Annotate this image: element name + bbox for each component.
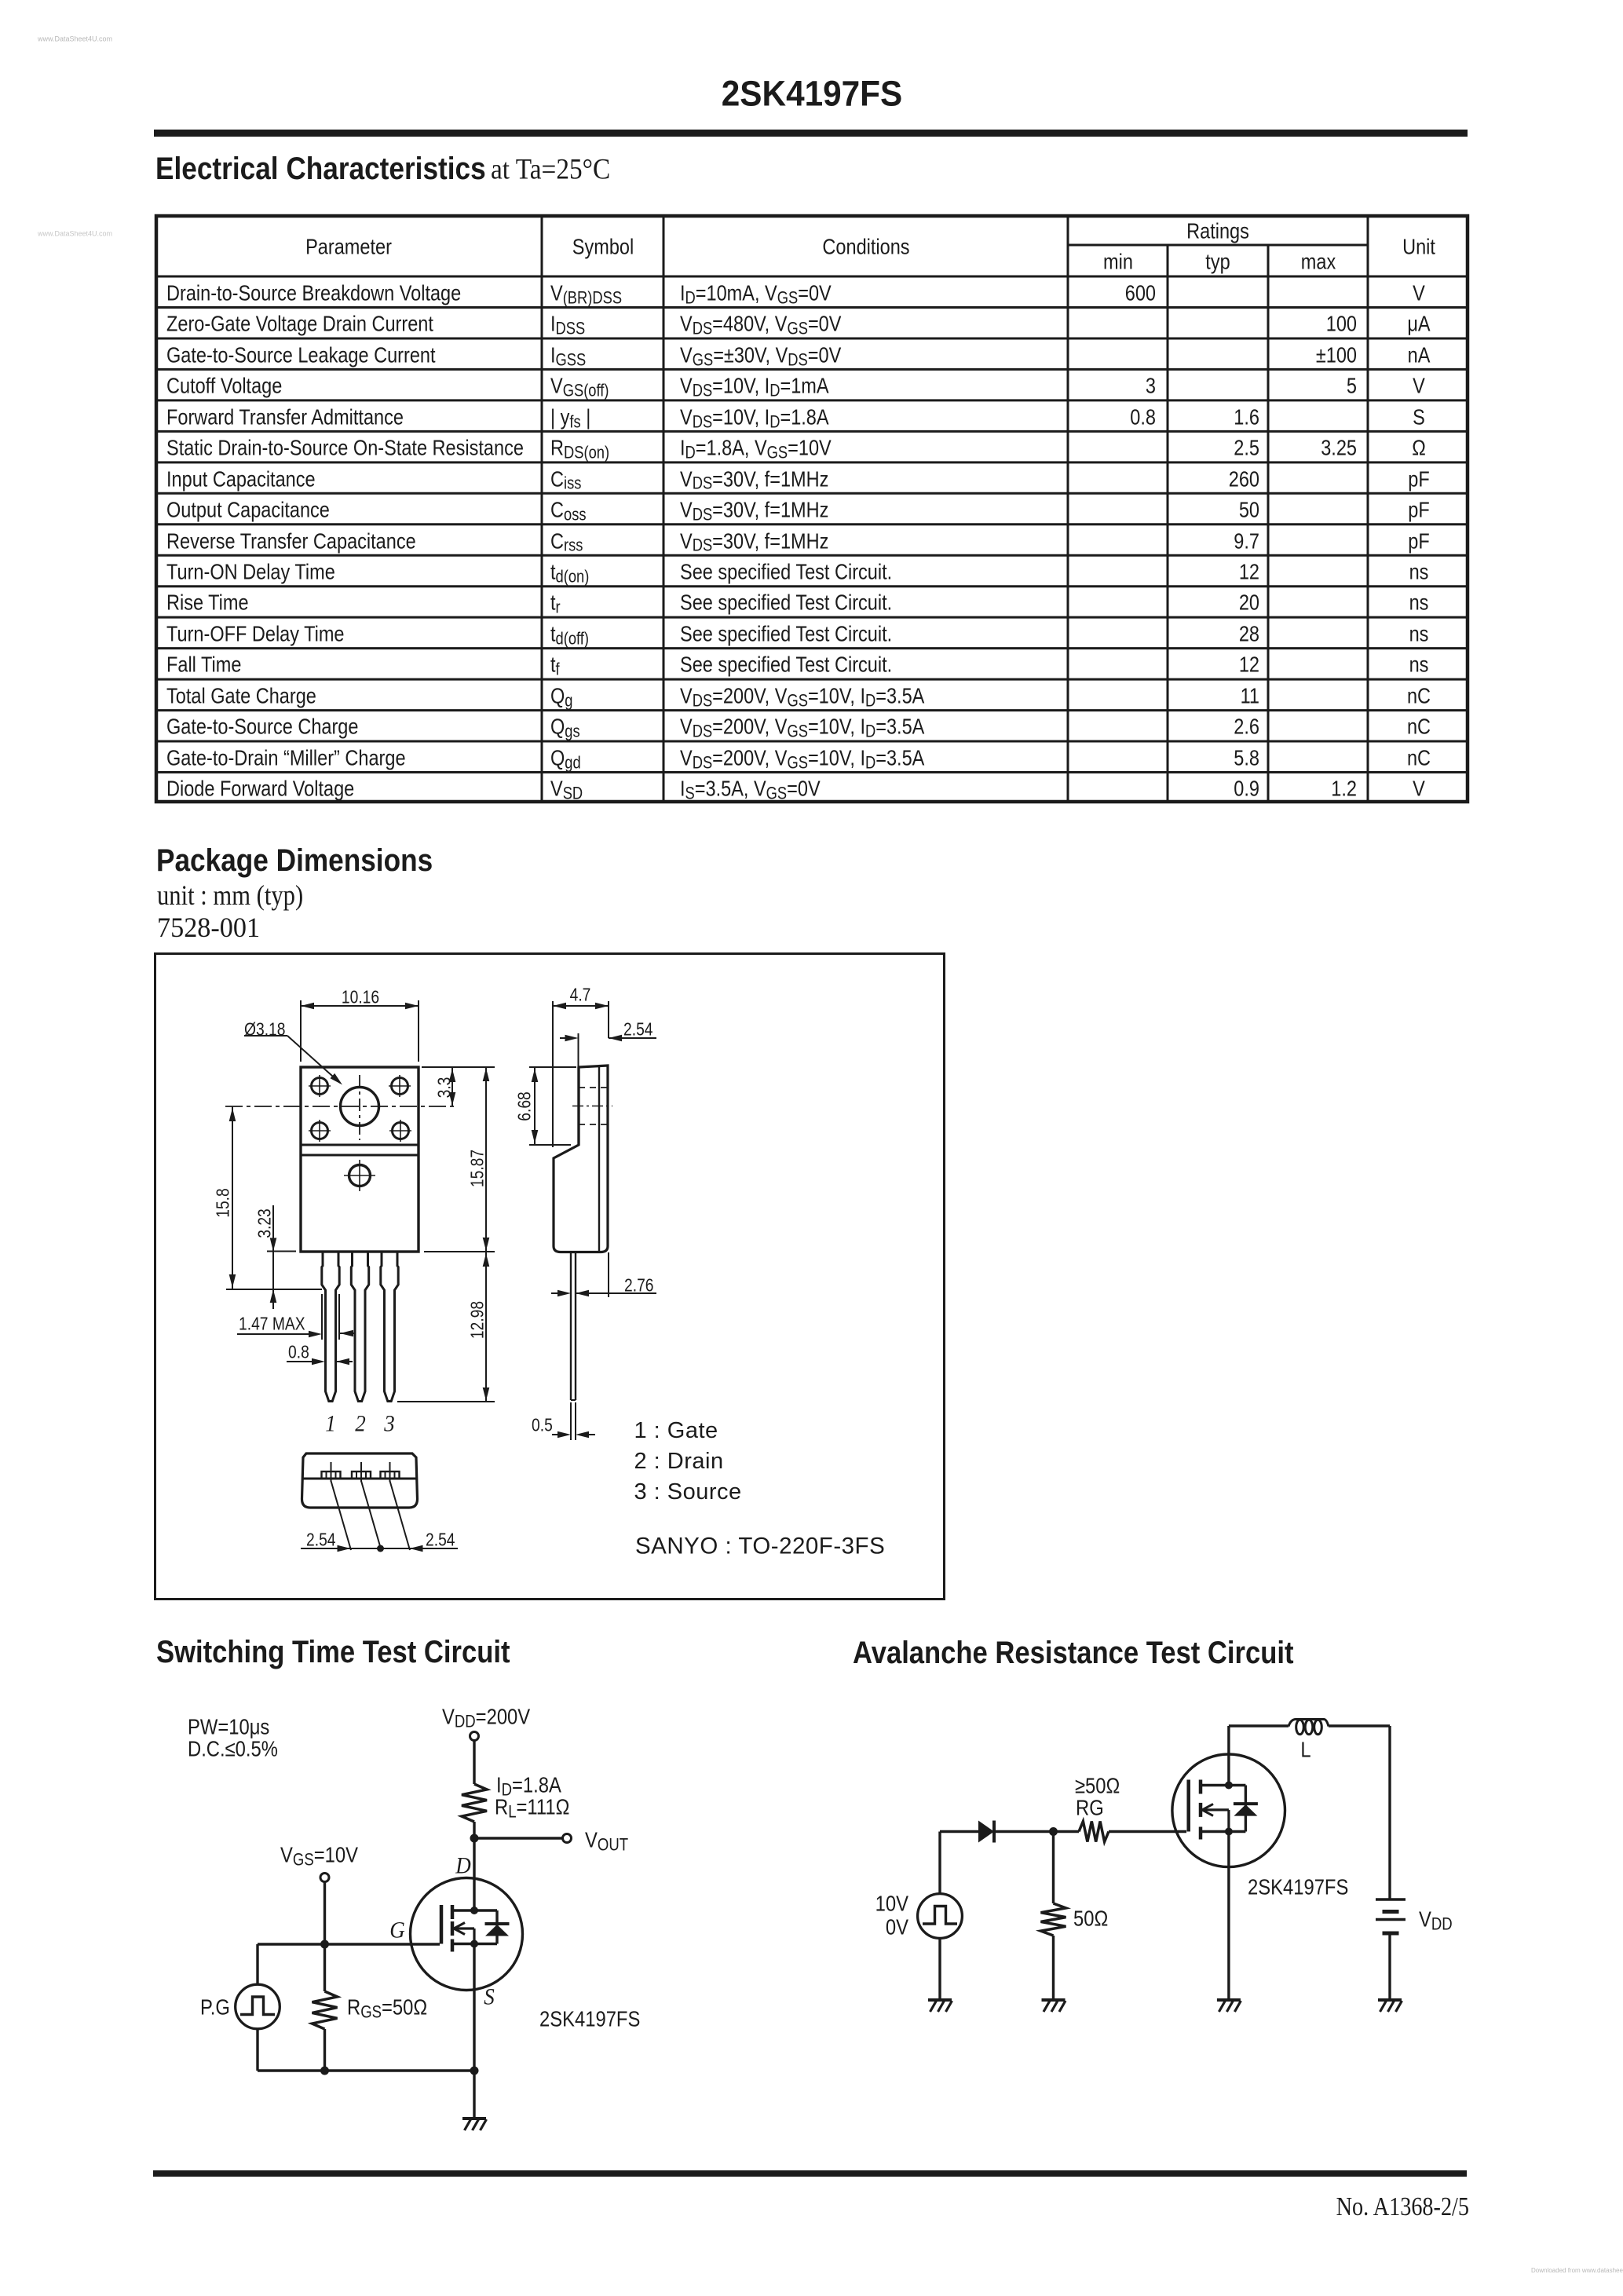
side view lead (571, 1252, 576, 1401)
dim label 12.98 (468, 1301, 488, 1339)
hole centerlines (225, 1075, 455, 1140)
net VDD=200V label (442, 1705, 530, 1727)
node bottom source (470, 2067, 479, 2075)
value label 50ohm (1073, 1907, 1108, 1929)
dim 3.23 (226, 1205, 322, 1309)
mounting hole (341, 1088, 379, 1126)
dim 15.87 (424, 1067, 495, 1252)
dim label 2.54 right (426, 1530, 455, 1550)
wire VDD to RL (473, 1741, 475, 1785)
pin label D (455, 1853, 471, 1878)
wire RG to gate (1109, 1830, 1186, 1833)
value label RL=111ohm (495, 1795, 569, 1818)
transistor Q1 2SK4197FS (411, 1878, 523, 1991)
wire VGS down (324, 1882, 326, 1945)
pin list 3 Source (634, 1479, 742, 1503)
dim label 2.54 side (623, 1020, 653, 1040)
label PW=10us (188, 1715, 269, 1738)
wire node to RG (1054, 1830, 1080, 1833)
part label 2SK4197FS (539, 2007, 640, 2030)
ground (1378, 2000, 1402, 2012)
dim 6.68 (529, 1067, 576, 1145)
label L (1300, 1738, 1310, 1760)
terminal VDD (470, 1732, 479, 1741)
dim 4.7 (553, 1001, 609, 1147)
bottom view pin 1 (322, 1462, 341, 1482)
part label 2SK4197FS (1248, 1875, 1348, 1898)
label RG (1076, 1796, 1104, 1819)
pin label S (484, 1984, 495, 2009)
pin number 2 (355, 1411, 366, 1436)
dim label 3.3 (434, 1077, 454, 1098)
wire bottom rail (258, 2069, 474, 2071)
dim label 2.76 (624, 1276, 654, 1296)
node bottom RGS (320, 2067, 329, 2075)
node gate junction (320, 1940, 329, 1949)
small corner holes (309, 1075, 411, 1142)
resistor 50ohm (1041, 1903, 1066, 1936)
package name label (635, 1535, 885, 1559)
dim label 0.8 (288, 1343, 309, 1362)
net VDD label (1419, 1907, 1453, 1930)
dim 0.5 (552, 1402, 595, 1440)
inductor L (1289, 1720, 1329, 1735)
dim label dia 3.18 (244, 1020, 286, 1040)
wire gate (258, 1943, 440, 1945)
resistor RL (462, 1784, 487, 1822)
ground (1217, 2000, 1241, 2012)
dim label 1.47 MAX (239, 1314, 305, 1334)
wire drain up (1229, 1726, 1289, 1786)
ground (1042, 2000, 1066, 2012)
dim label 10.16 (342, 988, 379, 1007)
wire RGS (324, 1944, 326, 1991)
value label RGS=50ohm (347, 1995, 427, 2018)
dim label 15.87 (468, 1150, 488, 1187)
label P.G (200, 1995, 230, 2018)
value label 10V (875, 1892, 908, 1914)
wire node down to R50 (1052, 1832, 1055, 1904)
node gate RC (1049, 1827, 1058, 1836)
dim 2.54 (side) (560, 1033, 656, 1068)
lead 3 (source) (381, 1252, 398, 1402)
pin list 2 Drain (634, 1449, 724, 1472)
dim 15.8 (229, 1106, 236, 1289)
dim label 15.8 (213, 1188, 232, 1218)
wire battery to ground (1388, 1933, 1391, 2000)
wire to ground (473, 2071, 475, 2119)
terminal VGS (320, 1874, 329, 1882)
wire R50 to ground (1052, 1936, 1055, 2000)
wire RL to node (473, 1822, 475, 1838)
wire PG top (256, 1944, 258, 1984)
dim 10.16 (301, 1000, 419, 1062)
ground (462, 2119, 487, 2130)
package outline box frame (155, 954, 945, 1600)
dim 3.3 (422, 1067, 495, 1106)
resistor RG (1079, 1822, 1109, 1842)
front view package body (301, 1067, 419, 1252)
ground (928, 2000, 952, 2012)
wire node to VOUT (474, 1837, 563, 1839)
terminal VOUT (563, 1834, 572, 1843)
dim 2.76 (551, 1252, 656, 1297)
dim label 4.7 (570, 985, 591, 1005)
pin label G (389, 1918, 405, 1943)
wire PG to ground (938, 1938, 941, 2000)
pulse generator P.G (236, 1984, 280, 2029)
lead 2 (drain) (351, 1252, 368, 1402)
value label >=50ohm (1075, 1774, 1120, 1797)
net VOUT label (585, 1828, 628, 1851)
wire node to drain (473, 1838, 475, 1910)
dim label 2.54 left (306, 1530, 336, 1550)
dim 1.47 MAX (237, 1294, 355, 1340)
dim label 6.68 (514, 1091, 534, 1121)
value label ID=1.8A (496, 1773, 561, 1796)
node VOUT junction (470, 1834, 479, 1843)
lead 1 (gate) (322, 1252, 339, 1402)
dim label 0.5 (532, 1416, 553, 1435)
dim dia 3.18 leader (244, 1036, 342, 1085)
bottom view pin leaders (331, 1481, 411, 1550)
transistor Q2 2SK4197FS (1172, 1754, 1285, 1867)
wire PG up (940, 1832, 978, 1894)
diode D1 (978, 1821, 994, 1843)
dim label 3.23 (254, 1208, 274, 1238)
pulse generator 10V/0V (918, 1894, 963, 1939)
wire L to VDD (1329, 1726, 1390, 1899)
label D.C. 0.5% (188, 1737, 278, 1760)
bottom view pin 3 (381, 1462, 400, 1482)
wire RGS to bottom (324, 2029, 326, 2071)
value label 0V (886, 1915, 908, 1938)
wire source to ground (1227, 1832, 1230, 2001)
side view body (554, 1066, 612, 1252)
pin list 1 Gate (634, 1418, 718, 1442)
battery VDD (1376, 1899, 1406, 1933)
pin number 3 (384, 1411, 395, 1436)
wire diode to node (994, 1830, 1054, 1833)
wire PG bottom (256, 2029, 258, 2071)
bottom view pin 2 (352, 1462, 371, 1482)
dim 0.8 (287, 1358, 353, 1366)
bottom view body (302, 1453, 418, 1508)
dim 2.54 2.54 (bottom) (301, 1545, 458, 1552)
wire source down (473, 1944, 475, 2071)
net VGS=10V label (280, 1843, 358, 1866)
dim 12.98 (397, 1252, 495, 1402)
body center hole (344, 1160, 375, 1191)
pin number 1 (325, 1411, 336, 1436)
resistor RGS (313, 1991, 338, 2029)
